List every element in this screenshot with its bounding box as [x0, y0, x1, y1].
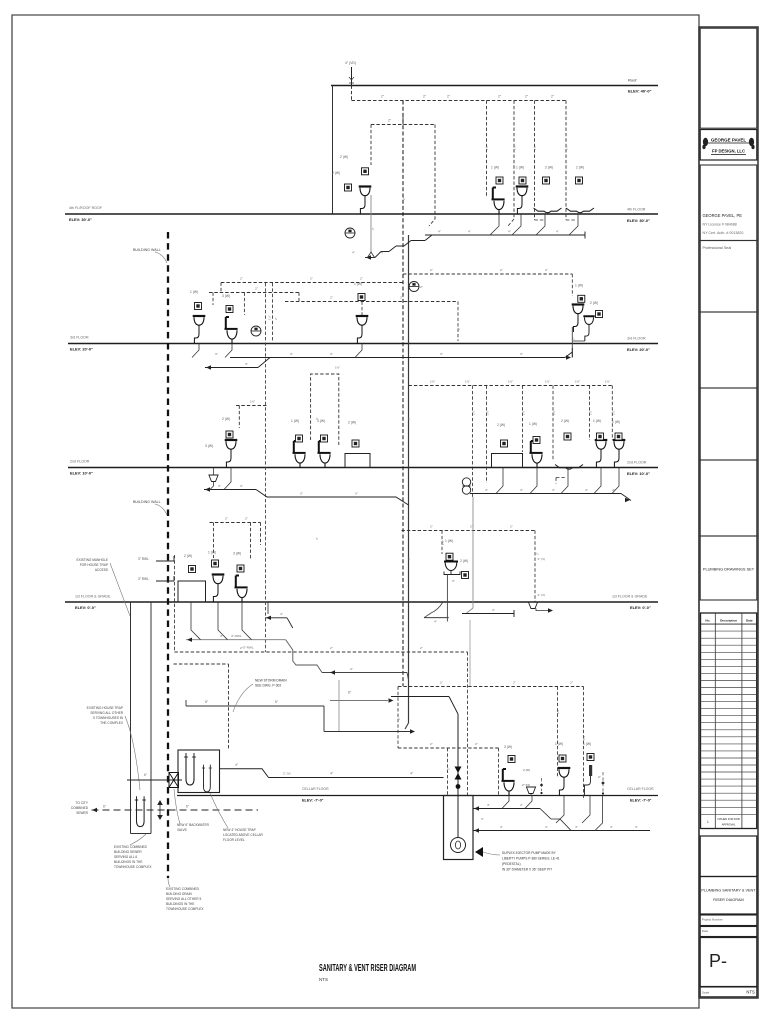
svg-text:1 (W): 1 (W) [291, 419, 299, 423]
lavatory 1st floor left [212, 575, 225, 603]
svg-text:ELEV: -7'-0": ELEV: -7'-0" [630, 799, 652, 803]
tag WC 4th [496, 177, 503, 184]
svg-text:1½": 1½" [605, 380, 610, 384]
vent piping band4 dashed [210, 517, 546, 603]
FAI circle on vent stack [409, 282, 419, 292]
svg-text:Project Number: Project Number [702, 918, 723, 922]
svg-text:4": 4" [500, 825, 503, 829]
svg-text:4": 4" [520, 803, 523, 807]
svg-text:1½": 1½" [611, 410, 615, 415]
shower stall 1st floor [178, 581, 206, 602]
sheet number panel P- [700, 938, 757, 987]
new house trap U1 [184, 753, 196, 785]
professional seal panel [700, 241, 757, 313]
empty panel 1 [700, 312, 757, 388]
lavatory 2nd floor left [225, 440, 238, 468]
storm drain piping [186, 691, 458, 734]
logo leaf icon right [749, 138, 755, 149]
svg-text:2 (W): 2 (W) [545, 166, 553, 170]
svg-text:Roof: Roof [628, 78, 637, 83]
cleanout circle 3rd floor left [251, 326, 261, 336]
svg-text:2": 2" [430, 525, 433, 529]
tag LAV 4th-1b [345, 184, 352, 191]
leader vertical mid [338, 680, 340, 731]
svg-text:GEORGE PAVEL: GEORGE PAVEL [711, 138, 747, 143]
new house trap U2 [202, 765, 212, 792]
svg-text:5" RWL: 5" RWL [243, 646, 254, 650]
svg-text:2" (V): 2" (V) [283, 772, 291, 776]
waste vertical right lavs [571, 327, 573, 358]
svg-text:2": 2" [397, 717, 401, 720]
svg-text:COMBINED: COMBINED [71, 806, 89, 810]
soil stack vertical [408, 235, 410, 723]
svg-text:LIBERTY PUMPS P-380 SERIES. LE: LIBERTY PUMPS P-380 SERIES. LE-41 [502, 857, 560, 861]
branch drains under cellar floor [473, 796, 650, 833]
pump discharge riser [457, 714, 459, 838]
svg-text:1 (W): 1 (W) [593, 419, 601, 423]
svg-text:1½": 1½" [472, 410, 476, 415]
vent main below roof dashed [351, 86, 353, 101]
vent piping band3 dashed [236, 366, 612, 498]
penthouse wall vertical [332, 86, 334, 215]
svg-text:EXISTING COMBINED: EXISTING COMBINED [114, 845, 148, 849]
empty panel 3 [700, 460, 757, 536]
svg-text:2 (W): 2 (W) [332, 171, 340, 175]
svg-text:1 (W): 1 (W) [575, 284, 583, 288]
svg-text:Description: Description [720, 618, 737, 622]
vent piping band2 dashed [209, 268, 572, 341]
svg-text:1 (W): 1 (W) [555, 742, 563, 746]
svg-text:4" (VD): 4" (VD) [345, 61, 356, 65]
revision table [701, 613, 757, 829]
vent circles below 2nd floor [462, 478, 470, 486]
svg-text:SANITARY & VENT RISER DIAGRAM: SANITARY & VENT RISER DIAGRAM [319, 962, 416, 974]
storm to ejector line [391, 697, 458, 715]
svg-text:3": 3" [300, 492, 303, 496]
svg-text:1 (W): 1 (W) [583, 742, 591, 746]
svg-text:3": 3" [440, 352, 443, 356]
svg-text:4": 4" [350, 667, 353, 671]
svg-text:3 (W): 3 (W) [222, 294, 230, 298]
vent drops to 4th floor fixtures [486, 101, 488, 197]
svg-text:3 (W): 3 (W) [504, 745, 512, 749]
svg-text:BUILDINGS IN THE: BUILDINGS IN THE [166, 902, 194, 906]
svg-text:2": 2" [470, 525, 473, 529]
svg-text:THE COMPLEX: THE COMPLEX [100, 721, 124, 725]
svg-text:2": 2" [240, 646, 243, 650]
svg-text:2": 2" [225, 517, 228, 521]
lavatory 3rd floor right lower [583, 316, 594, 341]
svg-text:4": 4" [434, 620, 437, 624]
check valve on riser [455, 767, 462, 780]
flow arrows at wall crossing [157, 800, 163, 805]
svg-text:2 (W): 2 (W) [460, 559, 468, 563]
tag shower1st [189, 566, 196, 573]
svg-text:TOWNHOUSE COMPLEX: TOWNHOUSE COMPLEX [114, 865, 152, 869]
svg-text:2 (W): 2 (W) [497, 423, 505, 427]
svg-text:4": 4" [438, 230, 441, 234]
svg-text:2 (W): 2 (W) [222, 417, 230, 421]
1st floor and grade line [65, 601, 658, 603]
logo panel: GEORGE PAVEL / FP DESIGN LLC [700, 130, 757, 161]
date row [700, 927, 757, 937]
svg-text:NTS: NTS [319, 977, 328, 982]
svg-text:1½": 1½" [508, 380, 513, 384]
svg-text:1 (W): 1 (W) [354, 282, 362, 286]
branch drains under 1st floor right [424, 602, 553, 624]
tag lav3rd-r1 [578, 295, 585, 302]
svg-text:ELEV: 10'-0": ELEV: 10'-0" [70, 471, 93, 476]
svg-text:2": 2" [430, 742, 433, 746]
svg-text:4": 4" [612, 488, 615, 492]
svg-text:GEORGE PAVEL, PE: GEORGE PAVEL, PE [703, 213, 743, 218]
svg-text:2": 2" [598, 775, 601, 779]
pump circle [451, 838, 466, 853]
svg-text:ELEV: 20'-0": ELEV: 20'-0" [70, 347, 93, 352]
funnel drain below 2nd floor left [209, 475, 218, 482]
svg-text:2": 2" [545, 268, 548, 272]
svg-text:4th FLOOR: 4th FLOOR [627, 208, 646, 212]
building wall dashed line [167, 232, 169, 878]
svg-text:2nd FLOOR: 2nd FLOOR [627, 461, 647, 465]
new house trap box [178, 750, 220, 793]
lavatory 2nd floor right 2 [613, 440, 626, 468]
svg-text:2": 2" [420, 285, 423, 289]
svg-text:1½": 1½" [268, 315, 272, 320]
svg-text:SERVING ALL OTHER 5: SERVING ALL OTHER 5 [166, 897, 201, 901]
svg-text:Scale: Scale [702, 990, 710, 994]
svg-text:1½": 1½" [565, 145, 569, 150]
svg-text:1½": 1½" [486, 410, 490, 415]
svg-text:2": 2" [400, 296, 403, 300]
svg-text:2": 2" [513, 681, 516, 685]
ejector pump callout [475, 847, 483, 857]
vent drop to mid lav [361, 302, 363, 318]
tag lav-cellar [559, 755, 566, 762]
tag lav3rd-r2 [596, 311, 603, 318]
svg-text:3": 3" [240, 484, 243, 488]
lavatory L-1 4th floor [359, 187, 372, 215]
branch drains under 1st floor left [186, 602, 409, 680]
svg-text:3rd FLOOR: 3rd FLOOR [627, 337, 646, 341]
svg-text:2": 2" [440, 681, 443, 685]
svg-text:2 (W): 2 (W) [561, 419, 569, 423]
svg-text:2": 2" [255, 287, 258, 291]
tag wc1st-left [237, 565, 244, 572]
svg-text:3rd FLOOR: 3rd FLOOR [70, 336, 89, 340]
tag lav2nd-left [226, 431, 233, 438]
waste from L-1 [370, 195, 372, 252]
svg-text:(PEDESTAL): (PEDESTAL) [502, 862, 521, 866]
svg-text:2": 2" [420, 646, 423, 650]
branch drain under 4th floor [352, 214, 585, 260]
plumbing drawings set panel [700, 536, 757, 600]
svg-text:2 (W): 2 (W) [340, 155, 348, 159]
vent piping band5 dashed [174, 555, 587, 800]
tag tub2nd-right [564, 433, 571, 440]
svg-text:VALVE: VALVE [177, 828, 187, 832]
svg-text:3": 3" [520, 352, 523, 356]
svg-text:4": 4" [468, 230, 471, 234]
svg-text:2": 2" [245, 517, 248, 521]
tag shower2nd-left [352, 440, 359, 447]
svg-text:NEW 6" BACKWATER: NEW 6" BACKWATER [177, 823, 210, 827]
tag BT-1 [543, 177, 550, 184]
svg-text:4": 4" [280, 612, 283, 616]
svg-text:2": 2" [264, 447, 268, 450]
svg-text:NY Cert. Auth. # 0013820: NY Cert. Auth. # 0013820 [703, 231, 744, 235]
vent thru roof 4in VTR [351, 67, 353, 86]
svg-text:2": 2" [240, 277, 243, 281]
svg-text:NY License # 084088: NY License # 084088 [703, 223, 737, 227]
svg-text:EXISTING HOUSE TRAP: EXISTING HOUSE TRAP [87, 706, 123, 710]
svg-text:1 (W): 1 (W) [516, 166, 524, 170]
svg-text:1½": 1½" [430, 380, 435, 384]
svg-text:1½": 1½" [250, 400, 255, 404]
vent stack dashed vertical [402, 101, 404, 687]
svg-text:4": 4" [556, 230, 559, 234]
shower stall 2nd floor left [345, 454, 370, 468]
svg-text:BUILDING WALL: BUILDING WALL [133, 248, 161, 252]
svg-text:3" RWL: 3" RWL [138, 577, 149, 581]
svg-text:4": 4" [508, 230, 511, 234]
svg-text:4": 4" [485, 488, 488, 492]
svg-text:ELEV: -7'-0": ELEV: -7'-0" [302, 799, 324, 803]
svg-text:1½": 1½" [556, 709, 560, 714]
lavatory 3rd floor right upper [572, 305, 585, 333]
svg-text:4th FL/ROOF ROOF: 4th FL/ROOF ROOF [69, 206, 103, 210]
svg-text:EXISTING MANHOLE: EXISTING MANHOLE [76, 558, 108, 562]
svg-text:P-: P- [709, 951, 727, 971]
svg-text:3": 3" [218, 484, 221, 488]
svg-text:4": 4" [381, 251, 384, 255]
svg-text:BUILDING DRAIN: BUILDING DRAIN [166, 892, 193, 896]
svg-text:1½": 1½" [513, 145, 517, 150]
svg-text:2nd FLOOR: 2nd FLOOR [70, 460, 90, 464]
svg-text:SERVING ALL 6: SERVING ALL 6 [114, 855, 137, 859]
svg-text:Professional Seal: Professional Seal [703, 246, 732, 250]
tag wc2nd-1 [296, 435, 303, 442]
lavatory L-2 4th floor [516, 187, 529, 215]
svg-text:2": 2" [510, 525, 513, 529]
svg-text:2": 2" [447, 767, 451, 770]
svg-text:3" RWL: 3" RWL [138, 557, 149, 561]
svg-text:2": 2" [330, 646, 333, 650]
tag lav1st-mid-right [462, 572, 469, 579]
svg-text:BUILDING WALL: BUILDING WALL [133, 500, 161, 504]
svg-text:3": 3" [355, 492, 358, 496]
svg-text:3": 3" [481, 817, 484, 821]
lavatory 3rd floor left [193, 316, 206, 344]
svg-text:3": 3" [290, 352, 293, 356]
svg-text:SERVING ALL OTHER: SERVING ALL OTHER [90, 711, 123, 715]
svg-text:2": 2" [572, 337, 576, 340]
svg-text:4": 4" [545, 825, 548, 829]
shower stall 2nd floor right [492, 454, 523, 468]
tag lav2nd-r1 [597, 433, 604, 440]
svg-text:1½": 1½" [589, 410, 593, 415]
svg-text:3": 3" [315, 417, 319, 420]
svg-text:2": 2" [500, 268, 503, 272]
svg-text:RISER DIAGRAM: RISER DIAGRAM [713, 898, 743, 902]
svg-text:2": 2" [536, 552, 540, 555]
svg-text:3": 3" [330, 352, 333, 356]
existing house trap [135, 796, 146, 826]
svg-text:4": 4" [552, 488, 555, 492]
bathtub BT-1 4th floor [534, 208, 562, 213]
water closet WC 2nd floor 2 [318, 441, 331, 468]
washer standpipe cellar [589, 765, 592, 776]
svg-text:BUILDINGS IN THE: BUILDINGS IN THE [114, 860, 142, 864]
tag shower2nd-right [501, 440, 508, 447]
svg-text:2 (W): 2 (W) [576, 166, 584, 170]
svg-text:2": 2" [570, 681, 573, 685]
svg-text:5 TOWNHOUSES IN: 5 TOWNHOUSES IN [93, 716, 124, 720]
svg-text:1½": 1½" [441, 540, 445, 545]
tag lav3rd-mid [358, 294, 365, 301]
branch drain under 2nd floor left [204, 468, 409, 506]
project number row [700, 915, 757, 926]
svg-text:1 (W): 1 (W) [529, 422, 537, 426]
lavatory cellar [558, 768, 571, 796]
svg-text:SEWER: SEWER [76, 811, 88, 815]
svg-text:2": 2" [402, 197, 406, 200]
title block outer strip [699, 27, 758, 998]
svg-text:4": 4" [585, 488, 588, 492]
svg-text:ELEV: 10'-0": ELEV: 10'-0" [627, 471, 650, 476]
svg-text:4": 4" [520, 488, 523, 492]
svg-text:ELEV: 0'-0": ELEV: 0'-0" [75, 605, 96, 610]
leader vertical right [469, 620, 471, 686]
water closet 1st floor left [235, 576, 248, 603]
svg-text:NTS: NTS [746, 990, 755, 995]
svg-text:ELEV: 30'-0": ELEV: 30'-0" [627, 218, 650, 223]
svg-text:No.: No. [705, 618, 710, 622]
svg-text:SEE DWG. P-302: SEE DWG. P-302 [255, 684, 281, 688]
title block: empty top panel [700, 28, 757, 128]
scale row [700, 987, 757, 997]
svg-text:1½": 1½" [335, 366, 340, 370]
svg-text:2 (W): 2 (W) [184, 554, 192, 558]
vent stack 2 dashed vertical [265, 283, 267, 652]
svg-text:FOR HOUSE TRAP: FOR HOUSE TRAP [80, 563, 108, 567]
svg-text:ISSUED FOR DOB: ISSUED FOR DOB [717, 817, 739, 821]
svg-text:1½": 1½" [552, 410, 556, 415]
svg-text:ACCESS: ACCESS [95, 568, 108, 572]
funnel drain at 1st floor right [528, 602, 537, 609]
svg-text:PLUMBING DRAWINGS SET: PLUMBING DRAWINGS SET [703, 567, 755, 572]
empty panel 2 [700, 388, 757, 460]
water closet WC 4th floor [492, 188, 505, 215]
svg-text:2": 2" [274, 317, 278, 320]
svg-text:3 (W): 3 (W) [233, 552, 241, 556]
svg-text:2": 2" [475, 742, 478, 746]
svg-text:CELLAR FLOOR: CELLAR FLOOR [627, 787, 654, 791]
svg-text:2 (W): 2 (W) [590, 301, 598, 305]
svg-text:1 (W): 1 (W) [445, 539, 453, 543]
4th floor line [65, 213, 658, 215]
2nd floor line [68, 467, 658, 469]
svg-text:ELEV: 0'-0": ELEV: 0'-0" [630, 605, 651, 610]
tag lav1st-mid [446, 553, 453, 560]
svg-text:CELLAR FLOOR: CELLAR FLOOR [302, 787, 329, 791]
svg-text:2": 2" [457, 327, 461, 330]
svg-text:3": 3" [315, 537, 319, 540]
svg-text:LOCATED ABOVE CELLAR: LOCATED ABOVE CELLAR [223, 833, 263, 837]
water closet cellar [502, 769, 515, 796]
sheet title panel group [700, 836, 757, 877]
svg-text:BUILDING SEWER: BUILDING SEWER [114, 850, 142, 854]
lav2 connector [573, 340, 585, 342]
svg-text:2": 2" [330, 296, 333, 300]
svg-text:2" (V): 2" (V) [538, 593, 546, 597]
svg-text:2 (W): 2 (W) [348, 421, 356, 425]
svg-text:4": 4" [487, 803, 490, 807]
svg-text:4": 4" [575, 825, 578, 829]
vent branch dashed upper [371, 117, 435, 227]
tag lav1st-left [212, 560, 219, 567]
svg-text:DUPLEX EJECTOR PUMP MADE BY: DUPLEX EJECTOR PUMP MADE BY [502, 851, 557, 855]
svg-text:NEW 4" HOUSE TRAP: NEW 4" HOUSE TRAP [223, 828, 256, 832]
lavatory 3rd floor mid [356, 316, 369, 344]
svg-text:ELEV: 40'-0": ELEV: 40'-0" [628, 89, 652, 94]
svg-text:1 (W): 1 (W) [208, 551, 216, 555]
svg-text:2 (R): 2 (R) [523, 768, 530, 772]
tag wc-cellar [508, 756, 515, 763]
6in sewer line to house trap [127, 779, 182, 781]
svg-text:1½": 1½" [575, 380, 580, 384]
tag wc3rd-left [226, 306, 233, 313]
water closet 2nd floor right [530, 441, 543, 468]
svg-text:2": 2" [430, 268, 433, 272]
svg-text:FP DESIGN, LLC: FP DESIGN, LLC [712, 149, 745, 154]
svg-text:2" (V): 2" (V) [538, 557, 546, 561]
svg-text:1½": 1½" [485, 145, 489, 150]
svg-text:4": 4" [635, 825, 638, 829]
floor drain cellar 2 [602, 782, 605, 785]
tag LAV 4th-2 [519, 177, 526, 184]
svg-text:3": 3" [215, 352, 218, 356]
tag BT-2 [576, 177, 583, 184]
svg-text:4": 4" [610, 825, 613, 829]
tag wc2nd-2 [321, 435, 328, 442]
svg-text:1 (W): 1 (W) [491, 166, 499, 170]
tag standpipe [587, 754, 594, 761]
funnel drain cellar 1 [526, 787, 535, 794]
branch drain under 3rd floor [192, 344, 572, 370]
svg-text:2" FD: 2" FD [522, 783, 531, 787]
branch drain under 2nd floor right [470, 468, 631, 503]
svg-text:1 (W): 1 (W) [612, 420, 620, 424]
water closet 3rd floor left [225, 317, 238, 344]
tag LAV 4th-1 [362, 168, 369, 175]
svg-text:1 (W): 1 (W) [190, 290, 198, 294]
svg-text:ELEV: 30'-0": ELEV: 30'-0" [69, 217, 92, 222]
backwater valve [169, 773, 179, 788]
svg-text:3 (W): 3 (W) [205, 444, 213, 448]
svg-text:APPROVAL: APPROVAL [722, 822, 736, 826]
cleanout circle under 4th floor [345, 228, 355, 238]
waste riser mid [472, 497, 474, 608]
svg-text:1st FLOOR & GRADE: 1st FLOOR & GRADE [75, 595, 111, 599]
svg-text:NEW STORM DRAIN: NEW STORM DRAIN [255, 679, 287, 683]
svg-text:ELEV: 20'-0": ELEV: 20'-0" [627, 347, 650, 352]
lavatory 1st floor mid [444, 562, 460, 603]
svg-text:4": 4" [407, 417, 411, 420]
tag lav2nd-r2 [615, 433, 622, 440]
tag wc2nd-right [533, 437, 540, 444]
svg-text:1½": 1½" [465, 380, 470, 384]
